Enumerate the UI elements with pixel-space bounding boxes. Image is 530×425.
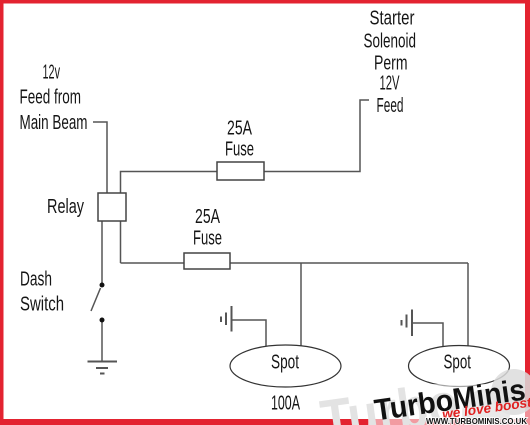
svg-text:Starter: Starter (370, 8, 415, 30)
svg-text:25A: 25A (195, 206, 220, 228)
svg-text:Main Beam: Main Beam (20, 112, 88, 134)
svg-text:Dash: Dash (20, 269, 52, 291)
svg-text:Fuse: Fuse (225, 139, 254, 161)
svg-text:12V: 12V (380, 73, 400, 95)
svg-text:25A: 25A (227, 118, 252, 140)
svg-text:Fuse: Fuse (193, 228, 222, 250)
svg-text:Feed: Feed (377, 95, 404, 117)
svg-text:Relay: Relay (47, 196, 84, 218)
svg-text:Switch: Switch (20, 294, 64, 316)
svg-text:100A: 100A (271, 393, 300, 415)
svg-text:Feed from: Feed from (20, 87, 82, 109)
svg-text:Solenoid: Solenoid (364, 31, 417, 53)
svg-text:Spot: Spot (271, 352, 299, 374)
svg-text:Perm: Perm (374, 53, 408, 75)
svg-text:12v: 12v (43, 62, 61, 84)
svg-text:WWW.TURBOMINIS.CO.UK: WWW.TURBOMINIS.CO.UK (426, 416, 528, 425)
